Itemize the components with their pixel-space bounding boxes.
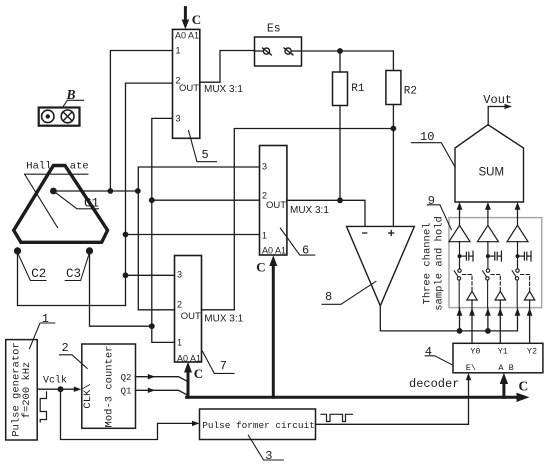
clock arrow C into U7 (thick) bbox=[187, 370, 190, 398]
S&H channel 1 input arrow bbox=[457, 308, 463, 316]
svg-text:Hall: Hall bbox=[26, 161, 51, 173]
S&H channel 3 output arrow to SUM bbox=[517, 207, 519, 218]
S&H channel 3 buffer amp bbox=[507, 218, 528, 269]
label 9 leader bbox=[427, 205, 451, 230]
node Vclk junction dot bbox=[58, 386, 64, 392]
svg-text:C1: C1 bbox=[84, 196, 99, 210]
B symbol circle with cross bbox=[61, 110, 74, 123]
S&H channel 3 control buffer bbox=[524, 291, 534, 307]
contact C3 dot bbox=[86, 247, 93, 254]
svg-text:R2: R2 bbox=[404, 86, 417, 98]
svg-text:decoder: decoder bbox=[409, 377, 459, 391]
mux U7 pin labels bbox=[177, 269, 201, 363]
svg-text:6: 6 bbox=[302, 243, 309, 257]
svg-text:2: 2 bbox=[62, 341, 69, 355]
mux U6 box bbox=[260, 146, 287, 256]
wire Q1 to bus bbox=[136, 390, 187, 394]
wire MUX5 input 3 from C3 (vertical x=151.8) down to MUX7 input 1 bbox=[152, 118, 175, 342]
wire channel 2 input from op-amp rail bbox=[487, 309, 489, 331]
pulse former U3 box bbox=[200, 409, 316, 440]
label 8 leader bbox=[322, 281, 376, 304]
svg-text:C: C bbox=[256, 259, 265, 274]
wire R2 bottom stub bbox=[392, 105, 394, 129]
label 5 leader bbox=[189, 131, 217, 162]
svg-text:Y0: Y0 bbox=[470, 346, 480, 356]
wire pulse former output to decoder enable bbox=[316, 379, 469, 425]
S&H channel 3 control arrow bbox=[527, 308, 533, 316]
svg-text:3: 3 bbox=[176, 113, 181, 123]
decoder U4 box bbox=[453, 343, 543, 373]
svg-text:OUT: OUT bbox=[179, 83, 199, 94]
svg-text:3: 3 bbox=[262, 162, 267, 172]
svg-text:A0 A1: A0 A1 bbox=[262, 245, 286, 255]
svg-text:4: 4 bbox=[425, 345, 432, 359]
arrowhead on Q1 wire bbox=[148, 388, 156, 393]
op-amp plus sign bbox=[389, 231, 394, 236]
S&H channel 2 output arrow to SUM bbox=[487, 207, 489, 218]
pulse generator U1 box bbox=[6, 340, 38, 440]
S&H channel 2 control wire from decoder bbox=[499, 309, 501, 344]
wire MUX6 input 2 stub bbox=[152, 199, 260, 201]
label 2 leader bbox=[59, 355, 87, 369]
S&H channel 1 switch bbox=[454, 269, 461, 308]
wire channel 1 input from op-amp rail bbox=[459, 309, 461, 331]
label B leader bbox=[63, 100, 84, 107]
wire MUX6 output to op-amp minus input bbox=[287, 200, 365, 226]
svg-text:Vclk: Vclk bbox=[43, 374, 67, 386]
wire C1 horizontal bbox=[53, 190, 137, 192]
svg-text:A0 A1: A0 A1 bbox=[177, 353, 201, 363]
pulse waveform glyph bbox=[321, 414, 353, 421]
svg-text:7: 7 bbox=[220, 359, 227, 373]
svg-text:Es: Es bbox=[267, 23, 281, 36]
mux U7 box bbox=[175, 256, 202, 363]
mux U5 pin labels bbox=[175, 31, 199, 124]
wire MUX5 input 1 from C1 bbox=[110, 51, 172, 192]
label C1 leader bbox=[53, 191, 98, 209]
S&H channel 3 switch bbox=[512, 269, 519, 308]
svg-text:Y2: Y2 bbox=[527, 346, 537, 356]
label 6 leader bbox=[280, 228, 314, 255]
mux U5 box bbox=[173, 29, 200, 138]
wire from contact C2 bbox=[18, 251, 126, 306]
wire C1 vertical branch to MUX6 in3 and MUX7 in2 bbox=[138, 167, 259, 310]
bus C arrowhead bbox=[517, 393, 530, 402]
B symbol circle with dot bbox=[42, 110, 54, 122]
svg-text:MUX 3:1: MUX 3:1 bbox=[204, 84, 243, 95]
op-amp U8 triangle bbox=[347, 226, 415, 305]
wire Es output to resistor tops bbox=[302, 50, 394, 52]
clock waveform glyph bbox=[40, 392, 46, 422]
wire MUX7 input 3 stub bbox=[126, 274, 175, 276]
wire MUX7 output up to lower rail bbox=[202, 129, 394, 310]
magnetic field B symbol box bbox=[39, 108, 80, 126]
svg-text:10: 10 bbox=[420, 130, 434, 144]
svg-text:5: 5 bbox=[202, 148, 209, 162]
S&H channel 1 switch control dashed bbox=[463, 275, 473, 292]
svg-text:OUT: OUT bbox=[181, 311, 201, 322]
S&H channel 2 hold capacitor bbox=[486, 251, 502, 261]
resistor R2 body bbox=[386, 71, 401, 105]
S&H channel 1 hold capacitor bbox=[458, 251, 474, 261]
svg-text:9: 9 bbox=[428, 194, 435, 208]
bus arrow A B into decoder (thick) bbox=[502, 381, 505, 398]
label C2 leader bbox=[18, 253, 46, 281]
label Pulse generator f=200 kHz (vertical) bbox=[10, 342, 33, 437]
svg-text:C2: C2 bbox=[31, 267, 46, 281]
contact C1 dot bbox=[50, 188, 57, 195]
arrowhead into counter clock bbox=[74, 387, 82, 392]
label Hall plate leader bbox=[25, 174, 58, 227]
svg-text:B: B bbox=[66, 87, 76, 102]
svg-text:C: C bbox=[194, 366, 203, 381]
Es element circle 2 with slash bbox=[285, 48, 291, 54]
svg-text:3: 3 bbox=[265, 449, 272, 463]
svg-text:2: 2 bbox=[177, 299, 182, 309]
bus C horizontal (thick) bbox=[187, 396, 518, 399]
wire MUX6 input 1 stub bbox=[126, 234, 260, 236]
S&H channel 1 buffer amp bbox=[449, 218, 470, 269]
wire R1 top stub bbox=[339, 51, 341, 72]
S&H channel 1 control buffer bbox=[467, 291, 477, 307]
svg-text:3: 3 bbox=[177, 269, 182, 279]
mux U6 pin labels bbox=[262, 162, 286, 256]
sample-hold U9 box (gray) bbox=[449, 218, 542, 308]
arrowhead into pulse former bbox=[192, 421, 200, 426]
svg-text:A B: A B bbox=[498, 363, 513, 373]
S&H channel 1 control arrow bbox=[469, 308, 475, 316]
S&H channel 2 buffer amp bbox=[477, 218, 498, 269]
label 10 leader bbox=[412, 143, 456, 168]
svg-text:C: C bbox=[192, 12, 201, 27]
svg-text:1: 1 bbox=[262, 231, 267, 241]
svg-text:Pulse former circuit: Pulse former circuit bbox=[202, 420, 315, 431]
arrowhead on Q2 wire bbox=[148, 374, 156, 379]
op-amp minus sign bbox=[363, 232, 367, 234]
svg-text:OUT: OUT bbox=[266, 200, 286, 211]
svg-text:CLK\: CLK\ bbox=[82, 383, 94, 408]
label C3 leader bbox=[65, 253, 89, 281]
wire R1 bottom to summing node bbox=[339, 106, 341, 201]
wire Vclk to pulse former bbox=[61, 389, 194, 439]
svg-text:Vout: Vout bbox=[483, 93, 512, 107]
svg-text:Mod-3 counter: Mod-3 counter bbox=[104, 346, 116, 428]
wire Vclk output bbox=[37, 388, 75, 390]
svg-text:8: 8 bbox=[325, 290, 332, 304]
svg-text:Three channel: Three channel bbox=[422, 223, 434, 305]
S&H channel 1 control wire from decoder bbox=[471, 309, 473, 344]
svg-text:MUX 3:1: MUX 3:1 bbox=[290, 205, 329, 216]
wire inside Es left bbox=[255, 50, 264, 52]
svg-text:C3: C3 bbox=[66, 267, 81, 281]
svg-text:Y1: Y1 bbox=[498, 346, 508, 356]
S&H channel 2 switch control dashed bbox=[491, 275, 500, 292]
svg-text:E\: E\ bbox=[466, 363, 476, 373]
S&H channel 3 switch control dashed bbox=[521, 275, 530, 292]
label 4 leader bbox=[425, 356, 453, 366]
S&H channel 3 hold capacitor bbox=[516, 251, 532, 261]
summer U10 pentagon bbox=[455, 125, 524, 202]
S&H channel 2 input arrow bbox=[485, 308, 491, 316]
resistor R1 body bbox=[333, 72, 348, 106]
wire Vout with arrow bbox=[488, 107, 505, 125]
svg-text:sample and hold: sample and hold bbox=[434, 216, 446, 311]
wire MUX5 input 2 from C2 (vertical x=125.5) bbox=[126, 83, 173, 305]
decoder pin labels bbox=[466, 346, 537, 373]
S&H channel 2 control arrow bbox=[497, 308, 503, 316]
wire op-amp output bbox=[380, 306, 517, 331]
wire from contact C3 bbox=[90, 251, 152, 326]
svg-text:C: C bbox=[519, 379, 529, 394]
svg-text:Q2: Q2 bbox=[121, 373, 132, 383]
svg-text:Q1: Q1 bbox=[121, 386, 132, 396]
label 7 leader bbox=[203, 351, 235, 373]
svg-text:1: 1 bbox=[42, 312, 49, 326]
S&H channel 2 switch bbox=[483, 269, 490, 308]
wire inside Es right bbox=[291, 50, 301, 52]
arrowhead into decoder E bbox=[466, 373, 471, 381]
label Three channel sample and hold (vertical) bbox=[422, 216, 446, 311]
label 3 leader bbox=[248, 435, 283, 460]
svg-text:1: 1 bbox=[176, 46, 181, 56]
wire op-amp plus input bbox=[392, 129, 394, 227]
Hall plate (thick hexagonal outline) bbox=[14, 166, 108, 243]
source Es box bbox=[255, 37, 302, 66]
wire Q2 to bus bbox=[136, 377, 187, 381]
svg-text:1: 1 bbox=[177, 338, 182, 348]
contact C2 dot bbox=[14, 247, 21, 254]
svg-text:SUM: SUM bbox=[479, 167, 505, 179]
svg-text:MUX 3:1: MUX 3:1 bbox=[204, 313, 243, 324]
clock arrow C into U5 (thick) bbox=[184, 8, 187, 21]
Es element circle 1 with slash bbox=[263, 48, 269, 54]
S&H channel 3 input arrow bbox=[515, 308, 521, 316]
label 1 leader bbox=[30, 323, 55, 349]
svg-text:f=200 kHz: f=200 kHz bbox=[21, 362, 33, 419]
wire MUX5 output to Es bbox=[200, 51, 255, 83]
svg-text:R1: R1 bbox=[351, 83, 365, 95]
S&H channel 3 control wire from decoder bbox=[529, 309, 531, 344]
svg-text:ate: ate bbox=[70, 161, 89, 173]
clock arrow C into U6 (thick) bbox=[272, 263, 275, 397]
label Hall plate underline bbox=[25, 173, 88, 175]
svg-text:A0 A1: A0 A1 bbox=[175, 31, 199, 41]
wire R2 top stub bbox=[392, 51, 394, 71]
S&H channel 1 output arrow to SUM bbox=[459, 207, 461, 218]
S&H channel 2 control buffer bbox=[495, 291, 505, 307]
counter U2 box bbox=[82, 344, 136, 428]
label Hall plate text bbox=[26, 161, 88, 173]
